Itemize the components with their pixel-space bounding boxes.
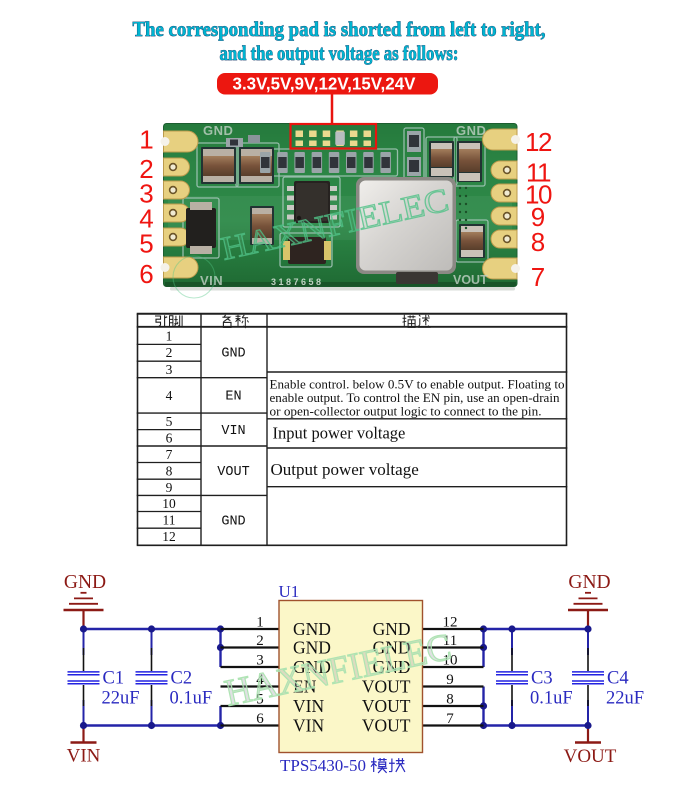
ground symbol GND right xyxy=(568,572,611,629)
wire: left VIN bottom rail xyxy=(84,724,221,726)
svg-text:C4: C4 xyxy=(607,669,629,689)
solder jumper on 4th pad pair xyxy=(335,132,345,146)
svg-text:0.1uF: 0.1uF xyxy=(170,689,213,709)
svg-text:VIN: VIN xyxy=(67,746,101,767)
wire: pins 5-6 bus vertical xyxy=(219,706,221,726)
svg-text:C2: C2 xyxy=(171,669,193,689)
small resistor top-left of row xyxy=(226,138,243,147)
table header 名称 xyxy=(222,315,230,322)
svg-text:8: 8 xyxy=(531,227,545,257)
pad pin 11 xyxy=(491,161,517,179)
U1 part label TPS5430-50 module xyxy=(280,756,405,775)
svg-text:U1: U1 xyxy=(279,582,300,601)
pad pin 8 xyxy=(491,230,517,248)
svg-text:GND: GND xyxy=(568,572,610,593)
svg-text:8: 8 xyxy=(166,464,173,479)
svg-text:GND: GND xyxy=(293,619,331,639)
pad pin 10 xyxy=(491,184,517,202)
pad pin 12 xyxy=(483,129,518,150)
pin pads left (1-6) and right (12-7) xyxy=(161,129,521,279)
red marker rectangle around jumper pads xyxy=(291,124,377,149)
svg-text:8: 8 xyxy=(446,692,454,708)
EN description xyxy=(270,377,565,418)
svg-text:2: 2 xyxy=(166,345,173,360)
svg-text:9: 9 xyxy=(446,672,454,688)
svg-text:Input power voltage: Input power voltage xyxy=(273,423,406,442)
svg-text:1: 1 xyxy=(166,328,173,343)
wire: C1 branch vertical xyxy=(83,629,85,655)
wire: right GND top rail xyxy=(484,628,589,630)
capacitor C3 xyxy=(496,648,573,709)
pin numbers left 1-6 xyxy=(256,615,264,728)
output capacitor lower-right xyxy=(459,224,485,258)
inductor chip below SOIC xyxy=(283,237,331,264)
power port VIN xyxy=(67,726,101,767)
op-amp U1 module body xyxy=(279,601,423,753)
wire: C4 branch vertical xyxy=(587,629,589,655)
pad pin 6 xyxy=(164,257,199,278)
junction dots xyxy=(80,625,592,729)
power port VOUT xyxy=(564,726,617,768)
small resistors right column xyxy=(407,131,421,152)
svg-text:5: 5 xyxy=(139,229,153,259)
big power inductor (silver) xyxy=(356,177,456,284)
svg-text:GND: GND xyxy=(221,347,245,362)
resistor row below jumper pads xyxy=(260,152,391,173)
svg-text:3 1 8 7 6 5 8: 3 1 8 7 6 5 8 xyxy=(271,277,321,287)
table header 引脚 xyxy=(155,316,161,327)
svg-text:22uF: 22uF xyxy=(606,689,644,709)
svg-text:VOUT: VOUT xyxy=(362,716,411,736)
svg-text:or open-collector output logic: or open-collector output logic to connec… xyxy=(270,404,542,418)
svg-text:VIN: VIN xyxy=(221,424,245,439)
svg-text:5: 5 xyxy=(166,414,173,429)
table header 描述 xyxy=(403,315,407,327)
wire: pins 1-3 bus vertical xyxy=(219,629,221,667)
silkscreen component outlines xyxy=(183,128,488,267)
svg-text:TPS5430-50: TPS5430-50 xyxy=(280,756,366,775)
svg-text:3.3V,5V,9V,12V,15V,24V: 3.3V,5V,9V,12V,15V,24V xyxy=(233,74,416,94)
wire: left GND top rail xyxy=(84,628,221,630)
red pointer line from box to pad area xyxy=(331,95,334,126)
U1 pin stubs left xyxy=(221,629,280,726)
svg-text:10: 10 xyxy=(162,496,176,511)
input capacitors (tan, top-left) xyxy=(201,147,274,184)
U1 pin stubs right xyxy=(423,629,484,726)
pin number labels (red) xyxy=(139,125,552,293)
pad pin 5 xyxy=(164,228,190,246)
pad pin 3 xyxy=(164,181,190,199)
svg-text:3: 3 xyxy=(166,362,173,377)
wire: pins 9-7 bus vertical xyxy=(482,687,484,726)
svg-text:2: 2 xyxy=(256,633,264,649)
svg-text:7: 7 xyxy=(531,262,545,292)
svg-text:9: 9 xyxy=(166,480,173,495)
svg-text:6: 6 xyxy=(139,259,153,289)
pad pin 1 xyxy=(164,131,199,152)
tan capacitor mid-left xyxy=(250,206,274,245)
output capacitors (brown, top-right) xyxy=(429,141,482,182)
PCB module photo xyxy=(164,124,518,291)
svg-text:C3: C3 xyxy=(531,669,553,689)
wire: right VOUT bottom rail xyxy=(484,724,589,726)
svg-text:GND: GND xyxy=(221,515,245,530)
svg-text:11: 11 xyxy=(163,513,176,528)
ground symbol GND left xyxy=(64,572,107,629)
svg-text:enable output. To control the: enable output. To control the EN pin, us… xyxy=(270,391,561,405)
wire: pins 12-10 bus vertical xyxy=(482,629,484,667)
svg-text:1: 1 xyxy=(139,125,153,155)
pin definition table xyxy=(137,314,568,546)
wire: C2 branch vertical xyxy=(151,629,153,655)
svg-text:6: 6 xyxy=(256,711,264,727)
via dots xyxy=(459,187,467,229)
svg-text:The corresponding pad is short: The corresponding pad is shorted from le… xyxy=(133,17,546,41)
U2 SOIC-8 regulator IC xyxy=(287,181,337,223)
svg-text:22uF: 22uF xyxy=(102,689,140,709)
pad pin 9 xyxy=(491,207,517,225)
jumper pad row (voltage select) xyxy=(296,131,372,147)
svg-text:VOUT: VOUT xyxy=(564,746,617,767)
capacitor C4 xyxy=(572,648,644,709)
svg-text:GND: GND xyxy=(203,123,233,138)
pad pin 7 xyxy=(483,258,518,279)
svg-text:VOUT: VOUT xyxy=(453,273,488,287)
svg-text:VIN: VIN xyxy=(293,716,324,736)
svg-text:Output power voltage: Output power voltage xyxy=(271,460,419,479)
svg-text:6: 6 xyxy=(166,430,173,445)
svg-text:7: 7 xyxy=(446,711,454,727)
capacitor C2 xyxy=(136,648,213,709)
table signal names xyxy=(217,347,249,530)
svg-text:GND: GND xyxy=(456,123,486,138)
pad pin 2 xyxy=(164,158,190,176)
svg-text:GND: GND xyxy=(64,572,106,593)
table pin numbers xyxy=(162,328,176,544)
svg-text:4: 4 xyxy=(166,388,173,403)
svg-text:1: 1 xyxy=(256,615,264,631)
red voltage label box xyxy=(217,73,438,95)
svg-text:12: 12 xyxy=(162,529,176,544)
svg-text:and the output voltage as foll: and the output voltage as follows: xyxy=(220,41,459,65)
small part left xyxy=(248,135,260,143)
pin numbers right 12-7 xyxy=(443,615,458,728)
svg-text:EN: EN xyxy=(225,390,241,405)
capacitor C1 xyxy=(68,648,140,709)
svg-text:VOUT: VOUT xyxy=(362,696,411,716)
svg-text:12: 12 xyxy=(525,127,552,157)
photo watermark circle xyxy=(173,256,215,298)
svg-text:Enable control. below 0.5V to: Enable control. below 0.5V to enable out… xyxy=(270,377,565,391)
wire: C3 branch vertical xyxy=(511,629,513,655)
diode (black, left) xyxy=(186,202,216,254)
green PCB board xyxy=(164,124,518,287)
pad pin 4 xyxy=(164,204,190,222)
svg-text:C1: C1 xyxy=(103,669,125,689)
svg-text:VOUT: VOUT xyxy=(217,465,249,480)
svg-text:0.1uF: 0.1uF xyxy=(530,689,573,709)
svg-text:VIN: VIN xyxy=(200,273,223,288)
svg-text:7: 7 xyxy=(166,447,173,462)
